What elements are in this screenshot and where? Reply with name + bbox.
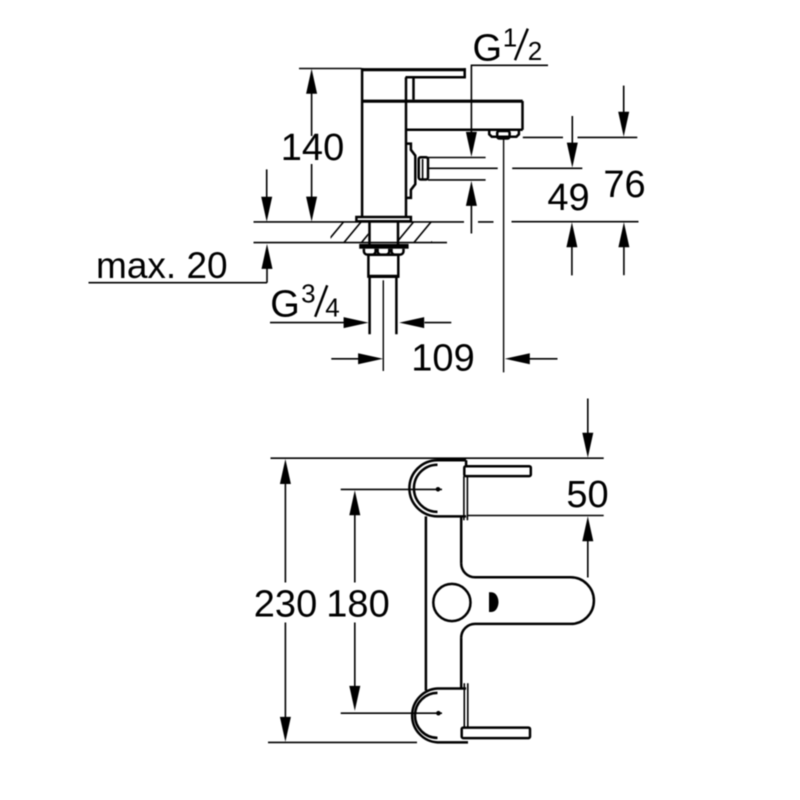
svg-text:180: 180 <box>326 584 389 626</box>
svg-text:140: 140 <box>281 127 344 169</box>
svg-text:G: G <box>270 284 300 326</box>
svg-text:max. 20: max. 20 <box>96 245 228 286</box>
svg-text:50: 50 <box>566 474 608 516</box>
svg-text:230: 230 <box>254 584 317 626</box>
svg-text:2: 2 <box>528 36 542 66</box>
svg-text:109: 109 <box>411 338 474 380</box>
svg-text:G: G <box>473 28 503 70</box>
svg-text:4: 4 <box>325 293 339 323</box>
svg-text:49: 49 <box>547 177 589 219</box>
svg-text:76: 76 <box>603 164 645 206</box>
svg-text:1: 1 <box>503 23 517 53</box>
svg-text:3: 3 <box>301 278 315 308</box>
